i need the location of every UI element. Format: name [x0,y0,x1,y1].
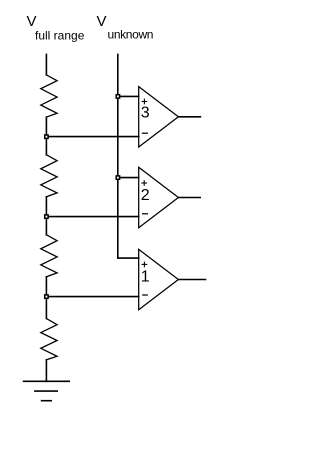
wire R1 to R2 [45,117,47,155]
wire node C to comparator 1 minus input [46,296,138,298]
node B junction [45,215,48,218]
comparator U1 output wire [178,279,205,281]
comparator U1 plus pin label [142,262,147,267]
op-amp comparator U2 triangle [139,167,179,227]
wire branch to comparator 3 plus input [118,95,139,97]
resistor R2 [41,155,57,197]
resistor R3 [41,235,57,277]
svg-text:V: V [27,13,37,30]
wire R2 to R3 [45,197,47,235]
node D junction on V unknown line at comparator 3 [116,95,119,98]
comparator U2 output wire [178,197,200,199]
svg-text:1: 1 [141,269,150,286]
node A junction [45,135,48,138]
comparator U3 output wire [178,116,200,118]
svg-text:full range: full range [35,29,85,43]
svg-text:V: V [97,13,107,30]
comparator U3 plus pin label [142,99,147,104]
comparator U1 minus pin label [143,294,147,296]
op-amp comparator U3 triangle [139,87,179,147]
wire branch to comparator 2 plus input [118,177,139,179]
node C junction [45,295,48,298]
svg-text:2: 2 [141,187,150,204]
svg-text:unknown: unknown [108,28,154,42]
resistor R4 [41,319,57,360]
wire node B to comparator 2 minus input [46,216,138,218]
op-amp comparator U1 triangle [139,249,179,309]
svg-text:3: 3 [141,105,150,122]
wire node A to comparator 3 minus input [46,136,138,138]
label V full range [27,13,85,43]
wire R4 to ground [45,360,47,382]
comparator U2 plus pin label [142,181,147,186]
wire V unknown vertical with bend to comparator 1 plus input [118,54,139,258]
wire R3 to R4 [45,277,47,319]
ground [24,381,70,400]
resistor R1 [41,75,57,117]
node E junction on V unknown line at comparator 2 [116,176,119,179]
wire from V full range to R1 [45,54,47,75]
comparator U2 minus pin label [143,213,148,215]
label V unknown [97,13,154,42]
comparator U3 minus pin label [143,132,148,134]
